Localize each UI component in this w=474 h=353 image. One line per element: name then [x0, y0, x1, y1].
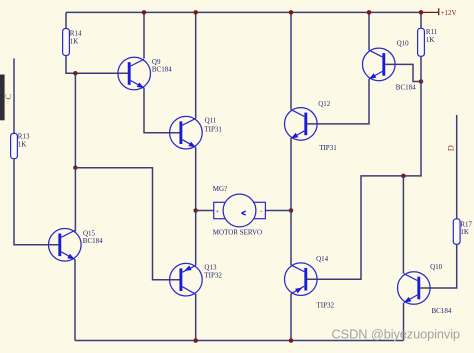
junction Q10b collector net	[401, 174, 406, 179]
junction bottom rail Q14	[289, 338, 294, 343]
wire Q13 collector to bottom rail	[195, 294, 197, 341]
junction rail-Q10	[367, 10, 372, 15]
svg-text:Q10: Q10	[430, 263, 443, 271]
svg-text:Q10: Q10	[397, 39, 410, 47]
svg-text:R14: R14	[70, 30, 82, 38]
svg-text:BC184: BC184	[432, 307, 452, 315]
svg-text:1K: 1K	[18, 140, 27, 148]
svg-text:Q14: Q14	[316, 255, 329, 263]
transistor Q11 TIP31	[170, 116, 223, 149]
wire rail to R14	[65, 12, 67, 29]
wire motor right down to Q14	[290, 211, 292, 265]
svg-text:R11: R11	[426, 28, 438, 36]
resistor R14 1K	[63, 29, 82, 56]
svg-text:Q13: Q13	[204, 263, 217, 271]
junction rail-Q9	[142, 10, 147, 15]
wire +12V top rail	[66, 11, 421, 13]
sheet connector C (edge bar)	[0, 75, 5, 121]
svg-text:TIP32: TIP32	[204, 271, 222, 279]
transistor Q15 BC184	[49, 229, 104, 262]
svg-text:BC184: BC184	[396, 83, 416, 91]
svg-text:-: -	[260, 208, 262, 215]
junction node Q9 base	[73, 71, 78, 76]
wire junction to Q15 collector	[74, 168, 76, 232]
svg-text:1K: 1K	[426, 36, 435, 44]
wire net D to R17	[456, 115, 458, 219]
wire Q12 base to Q10 emitter	[307, 79, 369, 124]
svg-text:MG?: MG?	[213, 185, 227, 193]
svg-text:Q12: Q12	[318, 100, 331, 108]
transistor Q10 BC184	[363, 39, 417, 91]
wire Q15 emitter to bottom rail	[74, 259, 76, 340]
wire bottom rail	[75, 340, 404, 342]
junction R11-Q10 base	[419, 79, 424, 84]
svg-text:TIP32: TIP32	[317, 302, 335, 310]
resistor R13 1K	[11, 133, 30, 159]
wire R14 to Q9 base	[66, 55, 129, 73]
svg-text:+: +	[216, 208, 220, 215]
wire R13 to Q15 base	[14, 158, 58, 245]
svg-text:C: C	[3, 94, 13, 100]
svg-text:Q11: Q11	[205, 116, 217, 124]
wire rail to Q9 collector	[143, 12, 145, 58]
svg-text:1K: 1K	[460, 228, 469, 236]
transistor Q14 TIP32	[285, 255, 335, 309]
wire Q10 base to R11 net	[385, 64, 421, 81]
svg-text:D: D	[446, 145, 456, 151]
svg-text:BC184: BC184	[83, 237, 103, 245]
transistor Q9 BC184	[118, 57, 172, 90]
junction bottom rail Q13	[193, 338, 198, 343]
svg-text:MOTOR SERVO: MOTOR SERVO	[213, 228, 262, 236]
transistor Q12 TIP31	[285, 100, 338, 152]
wire junction to Q10 collector (bottom)	[402, 176, 404, 274]
wire rail to Q10 collector	[368, 12, 370, 50]
transistor Q10 BC184	[398, 263, 452, 315]
wire Q10 emitter to bottom rail	[403, 303, 405, 341]
wire junction to Q13 base	[75, 168, 180, 280]
resistor R17 1K	[453, 219, 472, 245]
junction motor right	[289, 208, 294, 213]
wire C to R13	[13, 59, 15, 134]
junction node Q15 collector	[73, 165, 78, 170]
svg-text:1K: 1K	[70, 37, 79, 45]
svg-text:TIP31: TIP31	[319, 144, 337, 152]
wire rail to Q11 collector	[195, 12, 197, 118]
svg-text:R13: R13	[18, 133, 30, 141]
wire Q9-base junction down	[74, 73, 76, 167]
resistor R11 1K	[418, 28, 438, 56]
svg-text:+12V: +12V	[441, 9, 457, 17]
junction rail-R11	[419, 10, 424, 15]
wire Q11 emitter to motor left	[195, 147, 197, 210]
svg-text:CSDN @biyezuopinvip: CSDN @biyezuopinvip	[332, 327, 460, 342]
wire motor left down to Q13 emitter	[195, 211, 197, 266]
wire Q10 base to R17	[420, 244, 456, 288]
transistor Q13 TIP32	[170, 263, 223, 296]
wire Q9 emitter to Q11 base	[144, 88, 180, 133]
junction rail-Q11	[193, 10, 198, 15]
power port +12V	[421, 8, 457, 17]
wire Q12 emitter to motor right	[290, 138, 292, 210]
svg-text:R17: R17	[460, 220, 472, 228]
motor MG? MOTOR SERVO	[196, 185, 291, 236]
svg-text:BC184: BC184	[152, 65, 172, 73]
junction motor left	[193, 208, 198, 213]
wire Q14 collector to bottom rail	[290, 294, 292, 341]
svg-text:TIP31: TIP31	[204, 126, 222, 134]
wire rail to R11	[420, 12, 422, 28]
wire rail to Q12 collector	[290, 12, 292, 109]
wire R11 down to Q14 base	[307, 56, 421, 279]
junction rail-Q12	[289, 10, 294, 15]
